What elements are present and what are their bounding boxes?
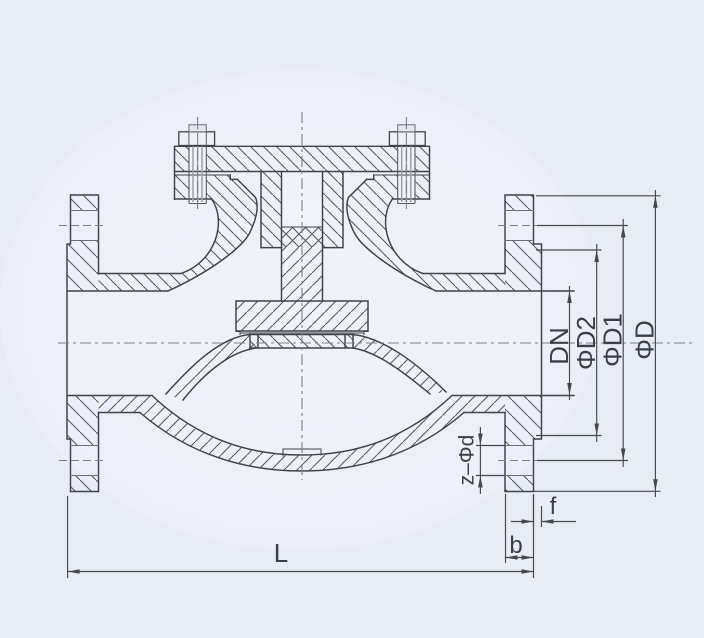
stud centerline right	[405, 117, 407, 209]
hex nut left	[179, 132, 215, 146]
left flange hatch	[67, 195, 99, 492]
svg-text:ΦD2: ΦD2	[571, 316, 601, 370]
arrow PhiD2 top	[594, 250, 599, 262]
bolt hole centerline right top	[498, 225, 545, 227]
stem hatch	[282, 227, 323, 301]
guide hollow light	[282, 172, 322, 226]
neck inner curve left	[168, 179, 257, 291]
neck outer curve left	[181, 199, 218, 274]
svg-text:f: f	[550, 493, 557, 520]
svg-text:ΦD1: ΦD1	[598, 313, 628, 367]
neck outer curve right	[386, 199, 423, 274]
body flange inner faces	[230, 175, 373, 179]
stud right threads	[402, 125, 411, 202]
body flange gasket faces	[175, 174, 430, 176]
left partition wall hatch	[166, 335, 256, 401]
arrow Phid bottom	[478, 476, 483, 488]
arrow PhiD1 top	[621, 226, 626, 238]
dim PhiD line	[654, 190, 656, 497]
bore left light	[70, 292, 166, 394]
stud right hole edges	[398, 146, 415, 203]
svg-text:ΦD: ΦD	[630, 320, 660, 360]
arrow f left	[522, 519, 534, 524]
belly inner curve	[152, 396, 452, 456]
arrow PhiD1 bottom	[621, 449, 626, 461]
pipe bore top line right	[436, 290, 574, 292]
arrow DN bottom	[567, 383, 572, 395]
body bonnet-flange right section hatch	[347, 175, 506, 291]
bonnet boss outline	[261, 172, 343, 248]
left flange outline	[67, 195, 99, 492]
bonnet plate outline	[175, 146, 430, 199]
svg-text:z–Φd: z–Φd	[456, 435, 479, 486]
neck inner curve right	[347, 179, 436, 291]
bolt hole centerline left top	[59, 225, 106, 227]
disc facing line	[240, 332, 364, 334]
stud tip right	[398, 125, 415, 132]
disc hatch	[236, 301, 368, 331]
hex nut right	[389, 132, 425, 146]
arrow b left	[506, 555, 518, 560]
arrow PhiD2 bottom	[594, 424, 599, 436]
stud centerline left	[197, 117, 199, 209]
guide and stem sides	[282, 172, 323, 302]
seat ring hatch	[250, 335, 353, 349]
dim PhiD ext lines	[534, 196, 661, 492]
pipe bore bottom line right	[452, 395, 574, 397]
stud channel clear right	[398, 146, 415, 203]
right flange bolt hole edges	[505, 211, 534, 476]
dim L line	[68, 571, 534, 573]
bottom pad	[283, 449, 321, 456]
pipe outer top left	[99, 273, 182, 275]
horizontal centerline	[58, 342, 692, 344]
bonnet plate hatch	[175, 146, 430, 171]
svg-text:DN: DN	[544, 327, 574, 365]
arrow PhiD bottom	[653, 479, 658, 491]
dim Phid line	[479, 427, 481, 494]
arrow PhiD top	[653, 196, 658, 208]
pipe outer top right	[423, 273, 505, 275]
arrow b right	[522, 555, 534, 560]
bore right light	[438, 292, 540, 394]
body flange bottom edges	[175, 198, 430, 200]
dim PhiD1 ext lines	[537, 226, 628, 461]
dim PhiD1 line	[622, 219, 624, 467]
partition wall left lines	[166, 335, 256, 401]
right flange outline	[505, 195, 542, 492]
dim PhiD2 ext lines	[536, 250, 602, 436]
svg-text:b: b	[509, 532, 522, 559]
pipe outer bottom left	[99, 412, 141, 414]
dim Phid ext lines	[476, 446, 505, 476]
dim f ext lines	[534, 494, 542, 527]
body bonnet-flange left section hatch	[99, 175, 258, 291]
bolt hole centerline right bottom	[498, 460, 545, 462]
seat ring outline	[250, 335, 353, 349]
bolt hole centerline left bottom	[59, 460, 106, 462]
partition wall right lines	[353, 335, 446, 395]
dim b line	[506, 557, 534, 559]
seat lip ticks	[236, 332, 368, 335]
pipe outer bottom right	[464, 412, 505, 414]
stud tip left	[189, 125, 206, 132]
arrow L right	[522, 569, 534, 574]
belly wall hatch	[99, 396, 506, 472]
pipe bore top line left	[67, 290, 168, 292]
svg-text:L: L	[274, 538, 288, 568]
arrow L left	[68, 569, 80, 574]
left flange bolt hole edges	[71, 211, 99, 476]
arrow Phid top	[478, 434, 483, 446]
dim L ext line left	[67, 496, 69, 578]
pipe bore bottom line left	[67, 395, 152, 397]
arrow f right	[542, 519, 554, 524]
dim b ext lines	[506, 494, 534, 578]
disc outline	[236, 301, 368, 331]
stud channel clear left	[189, 146, 206, 203]
arrow DN top	[567, 291, 572, 303]
dim PhiD2 line	[596, 244, 598, 442]
vertical centerline	[301, 112, 303, 480]
belly outer curve	[140, 413, 464, 472]
dim DN line	[569, 286, 571, 400]
bonnet boss flanks hatch	[261, 172, 343, 248]
stud left hole edges	[189, 146, 206, 203]
dim f arrow lines	[511, 521, 576, 523]
right partition wall hatch	[353, 335, 446, 395]
stem top cross hatch	[282, 227, 323, 247]
stem top line	[282, 226, 323, 228]
right flange hatch	[505, 195, 542, 492]
stud left threads	[193, 125, 202, 202]
